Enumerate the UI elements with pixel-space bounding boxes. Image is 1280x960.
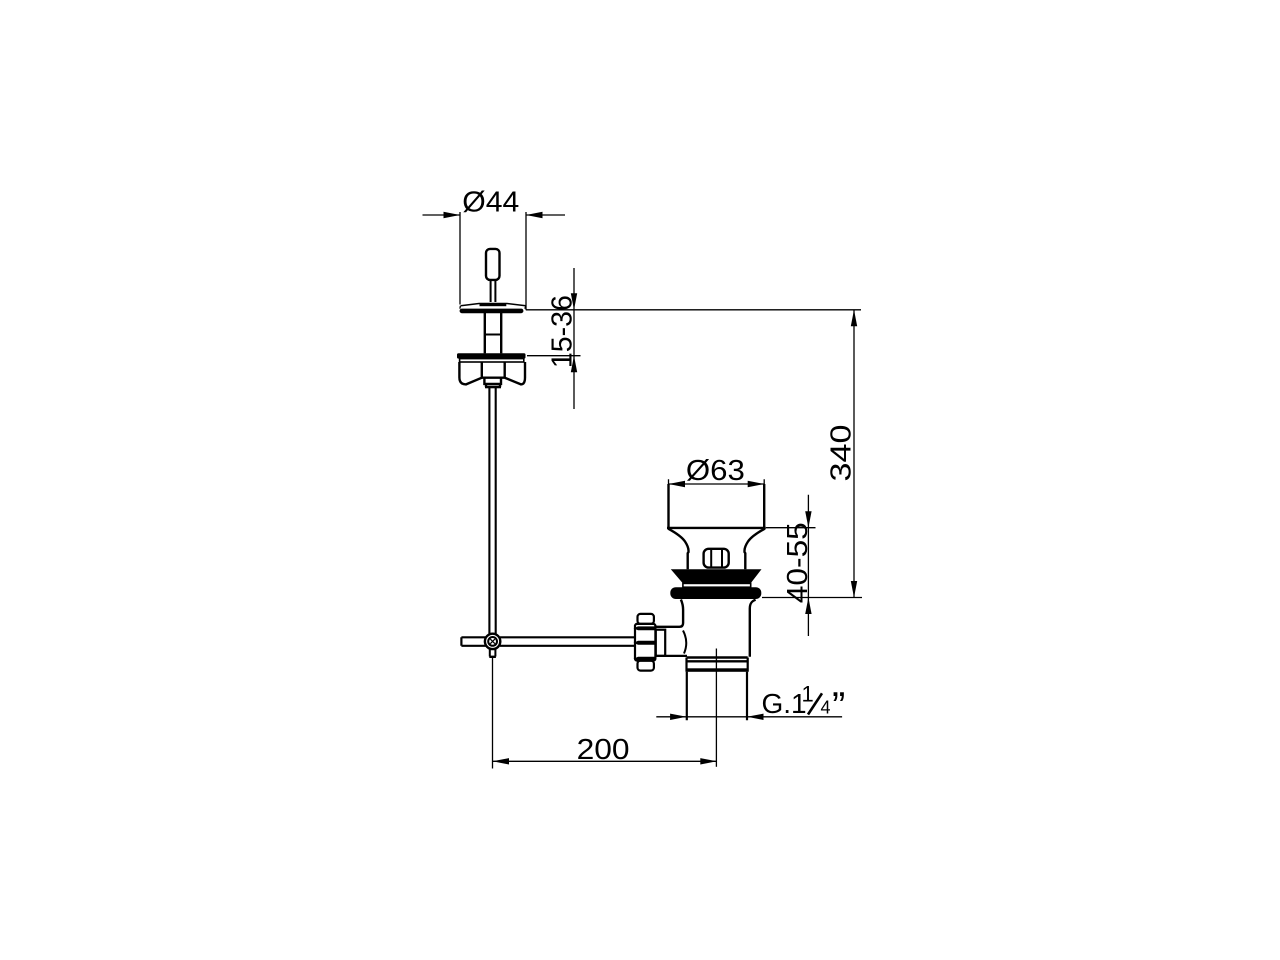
inner arc bulge bbox=[683, 631, 686, 654]
connector bbox=[656, 630, 665, 656]
svg-text:40-55: 40-55 bbox=[782, 522, 814, 603]
stem below ball bbox=[490, 649, 496, 657]
40-55 dim line bbox=[807, 495, 809, 636]
O44 arrows (outside, pointing inward) bbox=[444, 212, 461, 218]
disc top dark band bbox=[480, 304, 507, 307]
O63 arrows (inside, pointing outward) bbox=[669, 481, 686, 487]
lever right rod bbox=[500, 637, 635, 646]
fraction slash of G.1 1/4 bbox=[808, 693, 822, 714]
svg-text:Ø63: Ø63 bbox=[686, 455, 745, 487]
pull rod long bbox=[489, 387, 495, 634]
G arrows (outside, pointing inward) bbox=[670, 714, 687, 720]
left neck curve bbox=[668, 529, 689, 570]
200 dim line bbox=[493, 760, 717, 762]
G dim line bbox=[656, 716, 842, 718]
flange line bbox=[667, 527, 766, 529]
svg-text:G.1: G.1 bbox=[762, 688, 807, 719]
rod joint line bbox=[485, 334, 501, 336]
svg-text:200: 200 bbox=[577, 734, 630, 766]
boss bottom line bbox=[656, 655, 688, 657]
knurled nut: body bbox=[635, 624, 655, 661]
long horizontal reference line bbox=[526, 309, 861, 311]
40-55 arrows (outside) bbox=[805, 511, 811, 528]
knurled nut: top cap bbox=[638, 614, 654, 624]
O63 ext stubs above bbox=[669, 479, 765, 484]
right neck curve bbox=[745, 529, 766, 570]
disc side edges bbox=[460, 306, 526, 309]
knob bbox=[486, 249, 500, 280]
disc bottom rim bbox=[460, 309, 524, 314]
200 left ext line bbox=[492, 657, 494, 768]
svg-text:”: ” bbox=[832, 685, 845, 729]
O44 dim line bbox=[423, 214, 566, 216]
knurled nut: bottom cap bbox=[638, 661, 654, 671]
200 arrows (inside, pointing outward) bbox=[493, 758, 510, 764]
340 dim line bbox=[853, 310, 855, 598]
black bevel gasket (trapezoid) bbox=[671, 569, 762, 583]
40-55 top ext line bbox=[766, 527, 816, 529]
metal washer bbox=[460, 359, 524, 362]
wing nut center small nut bbox=[484, 378, 501, 384]
svg-text:15-36: 15-36 bbox=[547, 295, 579, 368]
svg-text:4: 4 bbox=[821, 698, 831, 718]
svg-text:340: 340 bbox=[826, 425, 858, 482]
thin washer plate bbox=[683, 583, 751, 587]
lever left stub bbox=[461, 637, 485, 646]
tailpipe bbox=[687, 672, 747, 721]
plug cylinder sides bbox=[669, 484, 765, 528]
wing nut body bbox=[459, 362, 525, 384]
svg-text:Ø44: Ø44 bbox=[462, 187, 519, 219]
capsule seal (black) bbox=[670, 587, 761, 599]
340 arrows (inside, pointing outward) bbox=[851, 310, 857, 327]
threaded rod upper bbox=[485, 312, 501, 353]
pivot ball bbox=[485, 634, 500, 649]
body left wall bbox=[656, 600, 683, 627]
O63 dim line bbox=[669, 483, 765, 485]
O44: ext lines bbox=[459, 212, 461, 305]
body right wall bbox=[750, 600, 756, 657]
collar bbox=[687, 658, 748, 662]
340 bottom ext line bbox=[762, 597, 862, 599]
15-36 dim line bbox=[573, 268, 575, 409]
center small nut bbox=[704, 549, 729, 568]
centerline of tailpipe bbox=[715, 649, 717, 767]
knob stem bbox=[491, 280, 496, 302]
15-36 bottom ext line bbox=[527, 355, 581, 357]
svg-text:1: 1 bbox=[802, 682, 814, 707]
escutcheon disc top face bbox=[461, 304, 526, 306]
rubber washer (black) bbox=[457, 353, 526, 358]
15-36 arrows (outside) bbox=[571, 293, 577, 310]
